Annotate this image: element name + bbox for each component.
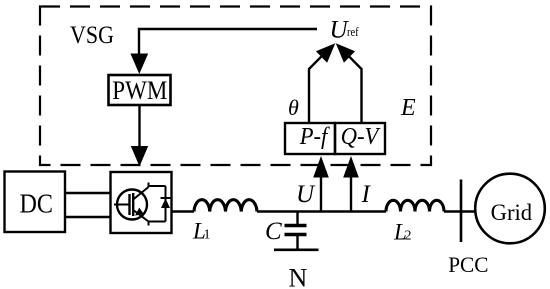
svg-text:θ: θ bbox=[288, 95, 299, 120]
PCC bus bar bbox=[460, 180, 463, 243]
PWM block bbox=[109, 75, 171, 105]
VSG controller boundary (dashed box) bbox=[40, 7, 431, 166]
svg-text:PCC: PCC bbox=[448, 252, 488, 277]
IGBT emitter line bbox=[133, 210, 148, 222]
svg-text:C: C bbox=[265, 218, 282, 245]
svg-text:N: N bbox=[289, 264, 308, 289]
IGBT gate lead bbox=[114, 204, 129, 206]
svg-text:DC: DC bbox=[20, 189, 54, 219]
svg-text:Q-V: Q-V bbox=[341, 124, 381, 150]
wire E from Q-V to Uref bbox=[347, 54, 362, 123]
diode cathode bar bbox=[161, 197, 171, 199]
voltage sense wire U bbox=[320, 178, 322, 212]
inductor L1 bbox=[194, 200, 257, 212]
arrowhead I into Q-V bbox=[343, 156, 359, 178]
IGBT gate bar bbox=[128, 194, 130, 215]
wire L2 to Grid bbox=[444, 210, 476, 212]
IGBT collector line bbox=[133, 187, 148, 200]
arrowhead into inverter bbox=[131, 146, 148, 167]
Q-V block bbox=[335, 123, 385, 154]
svg-text:VSG: VSG bbox=[70, 22, 114, 49]
IGBT top rail bbox=[149, 183, 166, 187]
wire L1 to L2 (main AC line) bbox=[257, 210, 386, 212]
wire DC bus upper bbox=[65, 192, 110, 194]
arrowhead theta at Uref bbox=[316, 43, 335, 63]
arrowhead E at Uref bbox=[336, 43, 355, 63]
svg-text:PWM: PWM bbox=[112, 76, 167, 105]
svg-text:I: I bbox=[361, 181, 372, 208]
svg-text:1: 1 bbox=[204, 228, 211, 243]
svg-text:ref: ref bbox=[347, 24, 359, 39]
svg-text:U: U bbox=[296, 181, 316, 208]
capacitor C bottom plate bbox=[285, 233, 307, 236]
P-f block bbox=[285, 123, 335, 154]
IGBT body circle bbox=[117, 190, 147, 220]
svg-text:P-f: P-f bbox=[299, 124, 331, 150]
current sense wire I bbox=[350, 178, 352, 212]
diode branch wire bbox=[165, 186, 167, 222]
neutral bar N bbox=[274, 249, 319, 252]
wire Uref to PWM (corner) bbox=[139, 29, 317, 56]
wire DC bus lower bbox=[65, 216, 110, 218]
svg-text:2: 2 bbox=[405, 229, 412, 244]
capacitor bottom lead bbox=[296, 236, 298, 249]
IGBT bottom rail bbox=[149, 222, 166, 226]
arrowhead U into P-f bbox=[313, 156, 329, 178]
DC source block bbox=[5, 172, 66, 233]
wire inverter to L1 bbox=[172, 210, 195, 212]
wire PWM to inverter bbox=[138, 105, 140, 147]
inverter block box bbox=[111, 172, 172, 233]
capacitor C top plate bbox=[285, 224, 307, 227]
IGBT main bar bbox=[132, 193, 134, 216]
IGBT emitter arrowhead bbox=[135, 208, 144, 216]
diode triangle bbox=[161, 199, 170, 209]
inductor L2 bbox=[386, 200, 444, 211]
wire theta from P-f to Uref bbox=[309, 54, 324, 123]
capacitor top lead bbox=[296, 212, 298, 225]
svg-text:Grid: Grid bbox=[491, 200, 533, 225]
svg-text:E: E bbox=[400, 95, 416, 121]
grid source circle bbox=[475, 174, 545, 244]
arrowhead into PWM bbox=[130, 54, 148, 75]
